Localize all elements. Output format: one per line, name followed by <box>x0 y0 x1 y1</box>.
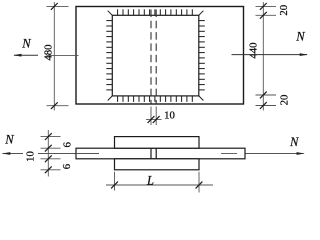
dimension chain 6 / 10 / 6 (plate thicknesses, left of elevation) <box>25 130 74 177</box>
svg-text:N: N <box>295 30 305 44</box>
hidden butt-joint lines of main plates (dashed) <box>151 10 156 104</box>
svg-text:N: N <box>21 37 31 51</box>
axial force arrow N (plan, left) <box>13 37 38 57</box>
svg-text:20: 20 <box>279 95 291 106</box>
butt joint lines between main plates (elevation) <box>151 148 156 159</box>
dimension 480 (left of plan) <box>43 2 69 111</box>
horizontal centerline (plan, left segment) <box>47 54 79 56</box>
axial force arrowhead N (elevation, right) <box>289 135 305 155</box>
axial force arrow N (plan, right) with centerline segment <box>232 30 309 57</box>
top cover plate (elevation) <box>115 137 200 149</box>
svg-text:6: 6 <box>62 142 74 148</box>
svg-text:N: N <box>289 135 299 149</box>
dimension 10 (gap between plate ends, below plan) <box>146 107 175 126</box>
svg-text:440: 440 <box>248 42 260 58</box>
main plate outline (plan view) <box>76 7 244 105</box>
svg-text:20: 20 <box>278 5 290 16</box>
main plate (elevation) <box>76 148 245 159</box>
svg-text:480: 480 <box>43 44 55 60</box>
centerline / force line N (elevation) <box>3 153 304 155</box>
axial force arrowhead N (elevation, left) <box>2 133 14 155</box>
bottom cover plate (elevation) <box>115 159 200 170</box>
dimension L (cover plate length, below elevation) <box>106 172 213 193</box>
fillet weld tick marks around cover plate <box>106 9 205 102</box>
splice cover plate outline (plan view) <box>112 15 199 96</box>
svg-text:6: 6 <box>61 163 73 169</box>
svg-text:10: 10 <box>25 151 37 162</box>
svg-text:N: N <box>4 133 14 147</box>
svg-text:L: L <box>146 174 154 188</box>
dimension chain 20 / 440 / 20 (right of plan) <box>248 2 291 111</box>
svg-text:10: 10 <box>164 109 175 121</box>
centerline visible inside main plate <box>76 153 237 155</box>
